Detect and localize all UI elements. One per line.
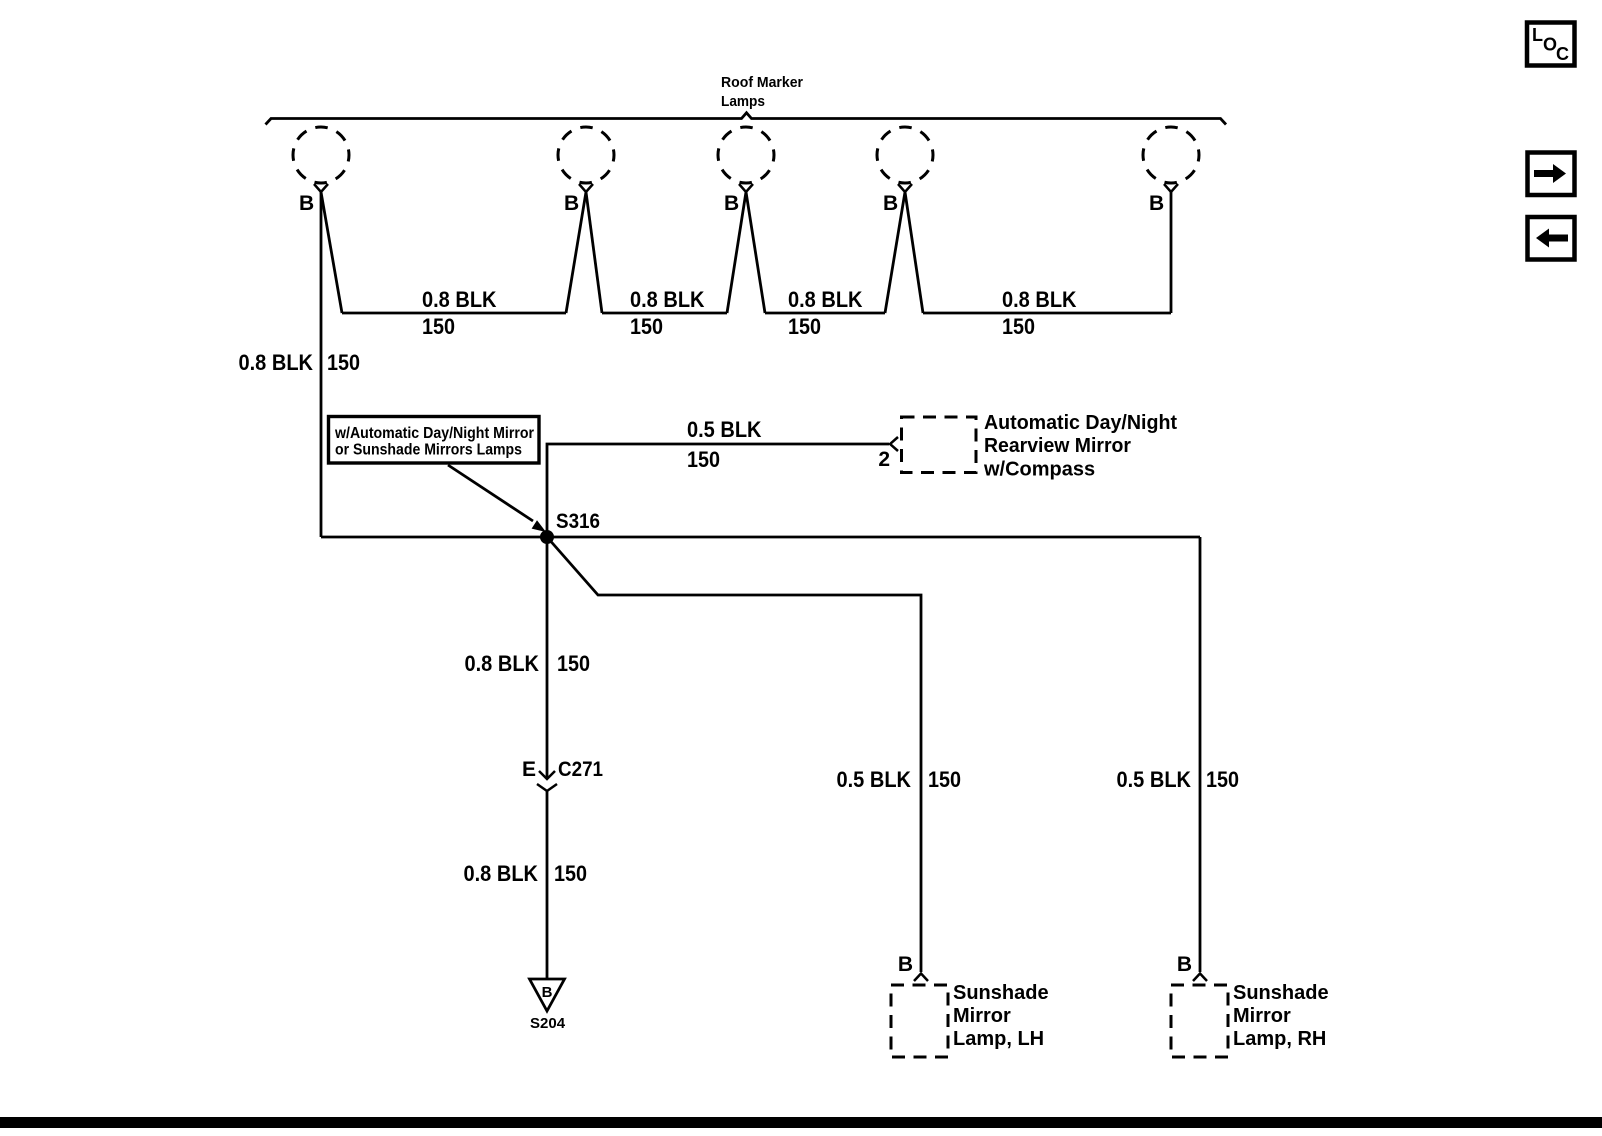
roof marker lamp 4 (dashed circle) [877, 127, 933, 183]
wire S316 diagonal to LH lamp branch [547, 537, 921, 972]
svg-text:Sunshade: Sunshade [1233, 982, 1329, 1004]
wire bus segment 2-3 [602, 312, 727, 315]
svg-text:0.8 BLK: 0.8 BLK [422, 287, 497, 312]
svg-text:0.8 BLK: 0.8 BLK [239, 350, 314, 375]
svg-text:150: 150 [687, 447, 720, 472]
svg-text:Lamp, LH: Lamp, LH [953, 1028, 1044, 1050]
svg-text:Lamp, RH: Lamp, RH [1233, 1028, 1326, 1050]
svg-text:B: B [898, 953, 913, 976]
roof marker lamp 2 (dashed circle) [558, 127, 614, 183]
svg-text:150: 150 [1206, 767, 1239, 792]
wire lamp4 right leg [905, 192, 923, 313]
next page arrow box [1528, 153, 1575, 196]
svg-text:150: 150 [630, 314, 663, 339]
svg-text:E: E [522, 758, 536, 781]
svg-text:Rearview Mirror: Rearview Mirror [984, 435, 1131, 457]
wire main horizontal through S316 [321, 536, 1200, 539]
previous page arrow box [1528, 217, 1575, 260]
connector C271 female chevron [537, 784, 557, 791]
wire S316 down to C271 [546, 537, 549, 778]
connector chevron lamp 1 [314, 184, 328, 192]
connector chevron lamp 3 [739, 184, 753, 192]
wire C271 to ground [546, 791, 549, 979]
svg-text:B: B [883, 192, 898, 215]
svg-text:150: 150 [788, 314, 821, 339]
sunshade mirror lamp LH dashed box [891, 985, 948, 1057]
svg-text:Automatic Day/Night: Automatic Day/Night [984, 412, 1177, 434]
roof marker lamp 1 (dashed circle) [293, 127, 349, 183]
wire lamp1 left leg long vertical [320, 192, 323, 537]
svg-text:0.8 BLK: 0.8 BLK [465, 651, 540, 676]
ground S204 triangle [530, 979, 565, 1011]
svg-text:B: B [724, 192, 739, 215]
wire lamp1 right leg diagonal [321, 192, 342, 313]
connector chevron lamp 5 [1164, 184, 1178, 192]
wire S316 to RH lamp vertical [1199, 537, 1202, 972]
svg-text:0.5 BLK: 0.5 BLK [1117, 767, 1192, 792]
svg-text:0.8 BLK: 0.8 BLK [1002, 287, 1077, 312]
wire lamp2 left leg [566, 192, 586, 313]
wire lamp3 right leg [746, 192, 765, 313]
svg-text:0.5 BLK: 0.5 BLK [837, 767, 912, 792]
svg-text:B: B [1177, 953, 1192, 976]
svg-text:150: 150 [554, 861, 587, 886]
svg-text:or Sunshade Mirrors Lamps: or Sunshade Mirrors Lamps [335, 442, 522, 459]
svg-text:150: 150 [928, 767, 961, 792]
automatic day/night rearview mirror dashed box [902, 417, 977, 473]
connector chevron at mirror pin 2 [890, 437, 898, 451]
svg-text:C271: C271 [558, 758, 603, 781]
wire lamp3 left leg [727, 192, 746, 313]
wire lamp4 left leg [885, 192, 905, 313]
svg-text:C: C [1556, 44, 1569, 64]
connector chevron LH lamp [914, 974, 928, 982]
LOC box top right [1527, 23, 1575, 66]
splice S316 junction dot [540, 530, 554, 544]
callout box w/Automatic Day/Night Mirror [329, 417, 540, 464]
svg-text:L: L [1532, 25, 1543, 45]
svg-text:B: B [1149, 192, 1164, 215]
wire bus segment 4-5 [923, 312, 1171, 315]
svg-text:150: 150 [557, 651, 590, 676]
svg-text:S316: S316 [556, 510, 600, 533]
svg-text:w/Automatic Day/Night Mirror: w/Automatic Day/Night Mirror [334, 425, 534, 442]
svg-text:B: B [299, 192, 314, 215]
connector C271 male chevron [539, 771, 555, 779]
svg-text:O: O [1543, 35, 1557, 55]
svg-text:B: B [564, 192, 579, 215]
svg-text:2: 2 [878, 448, 890, 471]
wire bus segment 3-4 [765, 312, 885, 315]
svg-text:Sunshade: Sunshade [953, 982, 1049, 1004]
svg-text:150: 150 [327, 350, 360, 375]
svg-text:0.8 BLK: 0.8 BLK [788, 287, 863, 312]
svg-text:Lamps: Lamps [721, 93, 765, 110]
callout arrow to S316 [448, 465, 533, 521]
svg-text:Roof Marker: Roof Marker [721, 74, 803, 91]
svg-text:B: B [542, 984, 553, 1001]
svg-text:0.5 BLK: 0.5 BLK [687, 417, 762, 442]
wire bus segment 1-2 [342, 312, 566, 315]
wire lamp5 vertical drop [1170, 192, 1173, 313]
connector chevron lamp 4 [898, 184, 912, 192]
sunshade mirror lamp RH dashed box [1171, 985, 1228, 1057]
wire lamp2 right leg [586, 192, 602, 313]
roof marker lamp 3 (dashed circle) [718, 127, 774, 183]
svg-text:Mirror: Mirror [1233, 1005, 1291, 1027]
bottom rule bar [0, 1117, 1602, 1128]
roof marker lamp 5 (dashed circle) [1143, 127, 1199, 183]
svg-text:w/Compass: w/Compass [983, 459, 1095, 481]
svg-text:150: 150 [422, 314, 455, 339]
connector chevron RH lamp [1193, 974, 1207, 982]
svg-text:0.8 BLK: 0.8 BLK [464, 861, 539, 886]
brace over roof marker lamps [266, 113, 1227, 125]
svg-text:0.8 BLK: 0.8 BLK [630, 287, 705, 312]
svg-text:150: 150 [1002, 314, 1035, 339]
connector chevron lamp 2 [579, 184, 593, 192]
svg-text:Mirror: Mirror [953, 1005, 1011, 1027]
svg-text:S204: S204 [530, 1015, 566, 1032]
wire S316 up to mirror [547, 444, 889, 537]
